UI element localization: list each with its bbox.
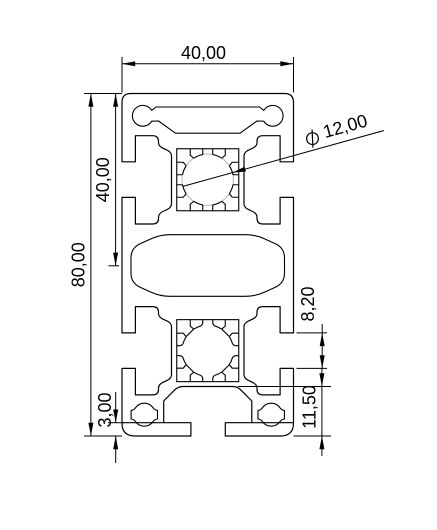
svg-text:40,00: 40,00 [93,157,113,202]
svg-text:3,00: 3,00 [95,392,115,427]
dimension 80,00 left [90,94,92,437]
slab inner line left [123,422,164,424]
bottom extension line [84,435,122,437]
dimension 40,00 top [121,57,123,93]
slab inner line right [252,422,293,424]
core bore bottom [177,320,239,382]
profile outline with T-slots [122,94,294,437]
top closed-face cavity [132,105,283,133]
leader diameter 12,00 [183,131,384,187]
svg-text:8,20: 8,20 [298,286,318,321]
octagon left [131,403,157,426]
svg-text:11,50: 11,50 [300,385,320,429]
core bore top (with gray circle) [182,154,233,205]
dimension 3,00 bottom-left [108,422,124,424]
svg-text:80,00: 80,00 [69,242,89,287]
dimension 40,00 left [84,93,122,95]
octagon right [258,403,284,426]
central cavity [131,235,285,297]
dimension 8,20 right [297,332,328,334]
dimension 11,50 right [238,386,331,388]
svg-text:40,00: 40,00 [181,43,226,63]
